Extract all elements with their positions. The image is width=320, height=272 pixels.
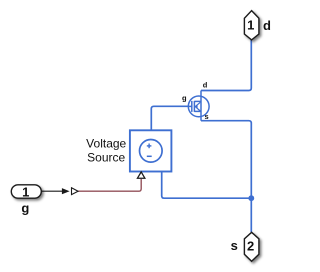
svg-text:1: 1 xyxy=(247,18,254,33)
svg-text:Source: Source xyxy=(87,151,125,165)
port 2 (s connection port) xyxy=(244,232,259,261)
voltage source U1 (controlled voltage source block) xyxy=(130,130,172,171)
svg-text:s: s xyxy=(205,112,209,121)
wire: Simulink signal from inport g xyxy=(42,190,64,192)
arrowhead: signal arrow xyxy=(62,188,70,194)
wire: physical signal (gate control) xyxy=(78,179,141,191)
svg-text:g: g xyxy=(21,200,29,215)
wire: gate net (voltage source + to MOSFET gate) xyxy=(151,106,188,130)
wire: voltage source - terminal to source net xyxy=(162,171,252,198)
wire: drain net (port d to MOSFET drain) xyxy=(201,40,251,91)
transistor MOSFET (Simscape N-MOSFET icon) xyxy=(188,91,209,121)
port: physical signal line start triangle xyxy=(72,188,79,195)
inport 1 (g) xyxy=(11,185,41,198)
svg-text:s: s xyxy=(231,238,238,253)
svg-text:d: d xyxy=(263,18,271,33)
svg-text:1: 1 xyxy=(22,184,29,199)
svg-text:d: d xyxy=(203,81,208,90)
svg-text:Voltage: Voltage xyxy=(86,136,126,150)
svg-text:g: g xyxy=(182,94,187,103)
port: physical signal input triangle of voltage source xyxy=(137,172,145,178)
wire: source net (MOSFET source to port s) xyxy=(201,121,251,232)
junction: source node xyxy=(248,195,254,201)
port 1 (d connection port) xyxy=(244,11,259,40)
svg-text:2: 2 xyxy=(247,239,254,254)
